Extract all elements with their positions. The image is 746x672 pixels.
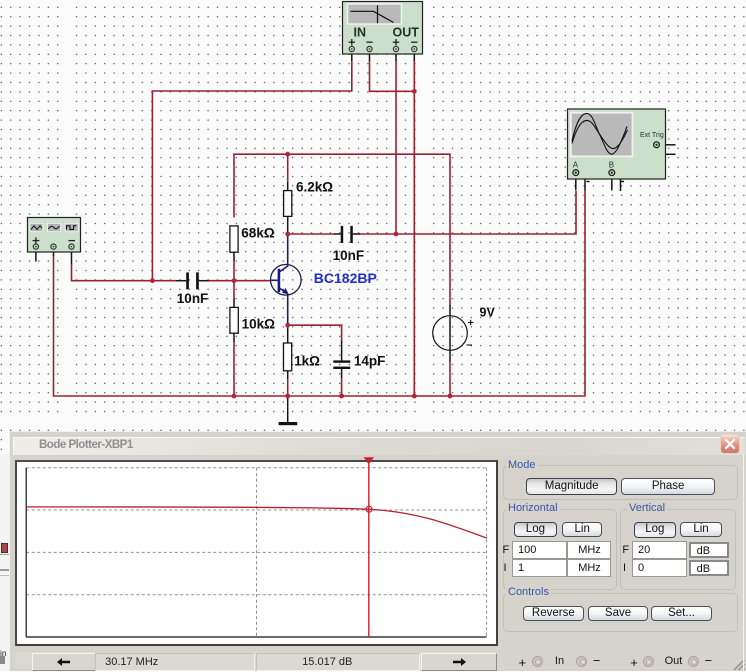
svg-text:A: A bbox=[573, 160, 579, 169]
svg-text:14pF: 14pF bbox=[354, 353, 386, 368]
svg-text:BC182BP: BC182BP bbox=[314, 270, 377, 286]
svg-text:68kΩ: 68kΩ bbox=[241, 225, 275, 240]
svg-text:Ext Trig: Ext Trig bbox=[640, 132, 664, 139]
svg-text:9V: 9V bbox=[480, 306, 496, 320]
svg-text:1kΩ: 1kΩ bbox=[294, 353, 320, 368]
svg-text:10nF: 10nF bbox=[333, 248, 365, 263]
svg-text:IN: IN bbox=[354, 26, 367, 40]
svg-text:B: B bbox=[609, 160, 614, 169]
svg-text:6.2kΩ: 6.2kΩ bbox=[296, 179, 333, 194]
svg-text:10nF: 10nF bbox=[177, 291, 209, 306]
svg-text:10kΩ: 10kΩ bbox=[242, 316, 276, 331]
svg-text:OUT: OUT bbox=[393, 26, 420, 40]
